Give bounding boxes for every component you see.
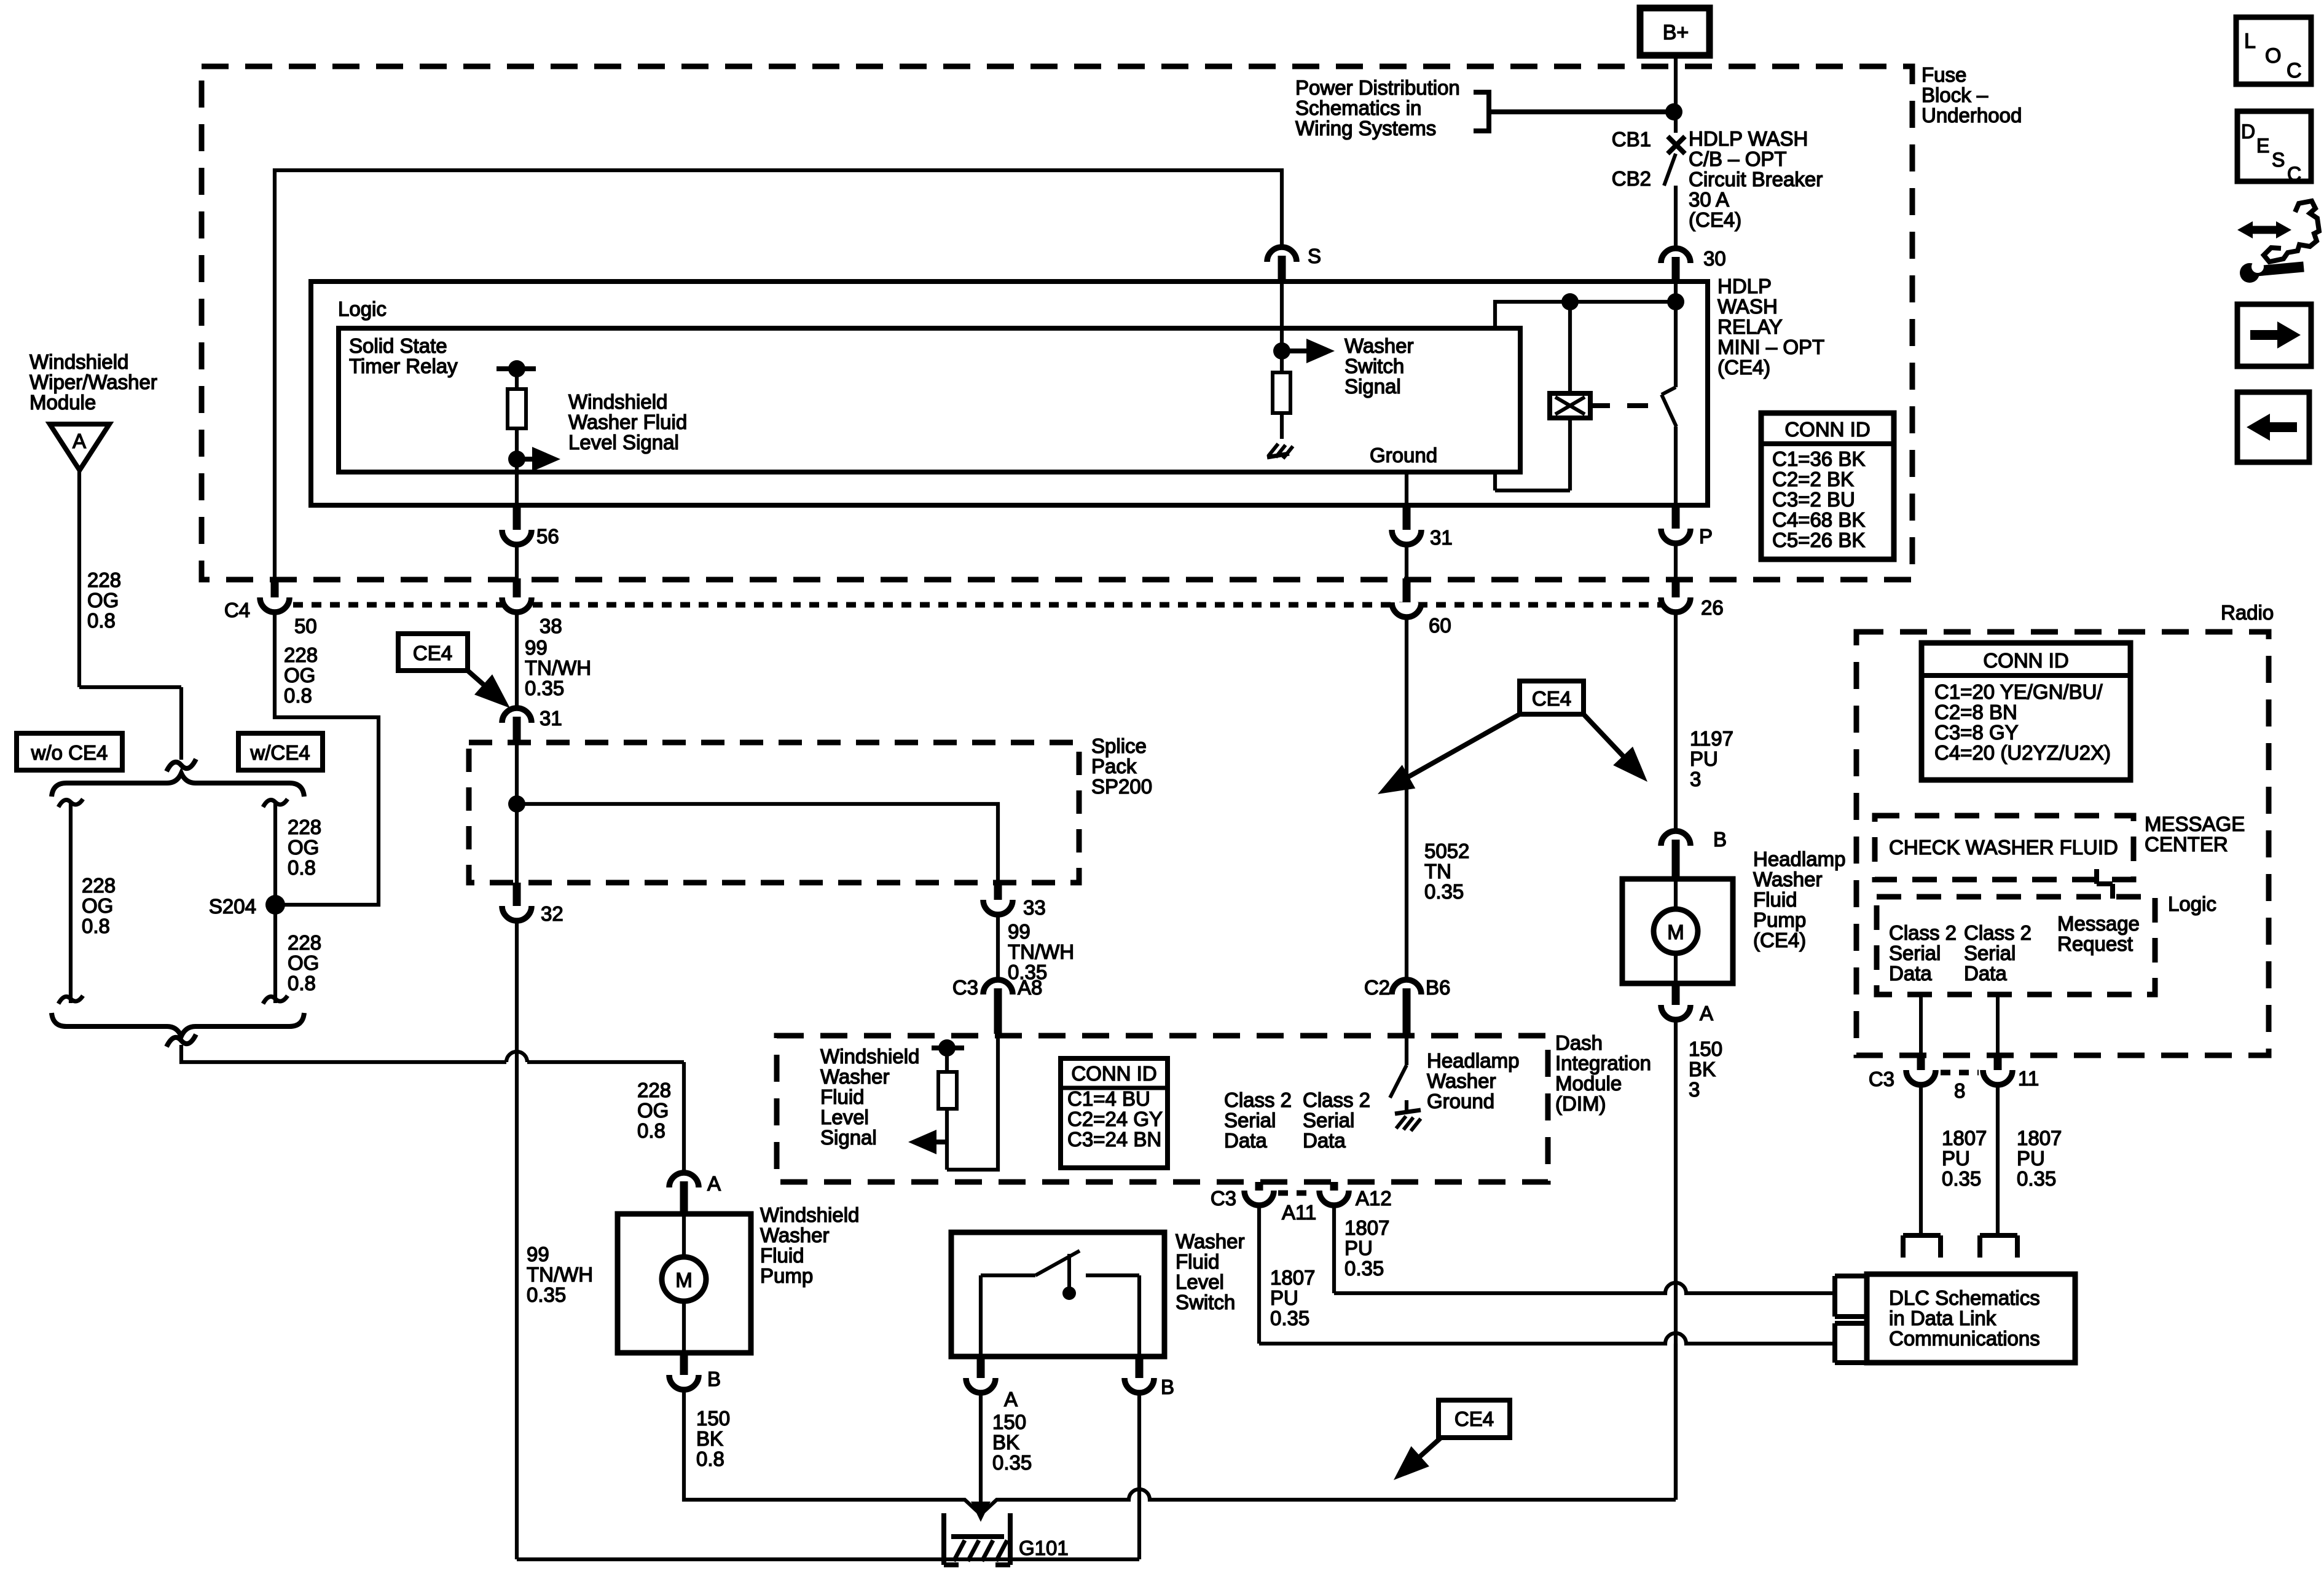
svg-text:M: M	[1667, 921, 1684, 943]
connector B windshield washer pump	[669, 1353, 949, 1500]
svg-text:0.8: 0.8	[637, 1119, 665, 1142]
svg-text:50: 50	[294, 615, 317, 637]
svg-text:Module: Module	[1555, 1072, 1622, 1095]
svg-text:w/o CE4: w/o CE4	[31, 741, 108, 764]
svg-text:38: 38	[540, 615, 562, 637]
svg-text:56: 56	[536, 525, 559, 548]
connector A windshield washer pump	[669, 1172, 721, 1215]
svg-text:MESSAGE: MESSAGE	[2145, 813, 2245, 835]
svg-text:0.35: 0.35	[2017, 1167, 2056, 1190]
svg-text:Request: Request	[2057, 932, 2133, 955]
relay coil	[1495, 302, 1590, 490]
svg-text:Message: Message	[2057, 912, 2140, 935]
connector 32	[502, 883, 593, 1559]
washer switch signal branch with resistor and internal ground	[1267, 284, 1413, 459]
svg-text:C1=20 YE/GN/BU/: C1=20 YE/GN/BU/	[1934, 680, 2103, 703]
DLC schematics box	[1867, 1274, 2075, 1363]
svg-text:B: B	[1713, 828, 1727, 851]
DIM bottom connector C3 pins A11 A12	[1211, 1182, 1392, 1224]
power distribution note and bracket	[1295, 76, 1670, 140]
svg-text:BK: BK	[1689, 1058, 1716, 1081]
svg-text:3: 3	[1690, 768, 1701, 790]
svg-text:Serial: Serial	[1303, 1109, 1354, 1132]
svg-text:Circuit Breaker: Circuit Breaker	[1689, 168, 1823, 191]
svg-text:Windshield: Windshield	[820, 1045, 919, 1068]
svg-text:228: 228	[284, 644, 318, 666]
svg-text:1807: 1807	[1345, 1216, 1389, 1239]
svg-text:Washer: Washer	[1427, 1069, 1496, 1092]
wires 1807 PU radio to DLC	[1921, 1085, 2062, 1235]
svg-text:Block –: Block –	[1922, 84, 1988, 106]
connector 60	[1392, 602, 1451, 980]
svg-text:Communications: Communications	[1889, 1327, 2040, 1350]
svg-text:OG: OG	[87, 589, 119, 612]
radio dashed box	[1856, 601, 2274, 1055]
svg-text:Underhood: Underhood	[1922, 104, 2022, 127]
svg-text:C4=68 BK: C4=68 BK	[1772, 508, 1865, 531]
wire 1807 PU from A12 to DLC	[1334, 1205, 1837, 1293]
windshield washer fluid pump	[618, 1203, 859, 1353]
svg-text:Module: Module	[29, 391, 96, 414]
svg-text:Class 2: Class 2	[1964, 921, 2032, 944]
svg-text:0.35: 0.35	[1270, 1307, 1309, 1329]
svg-text:30: 30	[1703, 247, 1726, 270]
headlamp washer fluid pump	[1622, 848, 1845, 983]
svg-text:S: S	[1308, 245, 1321, 267]
headlamp washer ground switch in DIM	[1390, 1036, 1519, 1131]
option break squiggle lower	[167, 1034, 196, 1047]
connector 56	[502, 506, 559, 548]
svg-text:Level: Level	[1176, 1270, 1224, 1293]
DESC icon	[2237, 111, 2311, 185]
svg-text:Headlamp: Headlamp	[1427, 1049, 1519, 1072]
svg-text:C2=8 BN: C2=8 BN	[1934, 701, 2017, 723]
svg-text:60: 60	[1429, 614, 1451, 637]
svg-text:DLC Schematics: DLC Schematics	[1889, 1286, 2040, 1309]
svg-text:RELAY: RELAY	[1717, 315, 1783, 338]
connector C4 with circuit 50	[224, 578, 317, 637]
check washer fluid message box	[1875, 813, 2245, 880]
svg-text:228: 228	[637, 1079, 671, 1101]
svg-text:Class 2: Class 2	[1303, 1089, 1370, 1111]
wire 228 OG from C4 to S204	[275, 612, 379, 905]
svg-text:Windshield: Windshield	[568, 390, 667, 413]
svg-text:99: 99	[527, 1243, 549, 1266]
svg-text:Washer: Washer	[1176, 1230, 1244, 1253]
next arrow icon	[2237, 304, 2311, 366]
svg-text:Signal: Signal	[820, 1126, 877, 1149]
svg-text:Wiring Systems: Wiring Systems	[1295, 117, 1436, 140]
connector 33	[983, 883, 1074, 983]
svg-text:HDLP: HDLP	[1717, 275, 1772, 297]
svg-text:SP200: SP200	[1091, 775, 1152, 798]
svg-text:CONN ID: CONN ID	[1784, 418, 1870, 441]
svg-text:OG: OG	[288, 836, 319, 859]
svg-text:Fluid: Fluid	[760, 1244, 804, 1267]
svg-text:Logic: Logic	[2168, 892, 2216, 915]
timer relay internal resistor and supply bar	[497, 360, 536, 505]
svg-text:OG: OG	[82, 894, 113, 917]
ground label and wire to connector 31	[1370, 444, 1437, 505]
svg-text:TN/WH: TN/WH	[527, 1263, 593, 1286]
svg-text:Switch: Switch	[1176, 1291, 1235, 1313]
fuse block label	[1922, 63, 2022, 127]
svg-text:C2=2 BK: C2=2 BK	[1772, 468, 1854, 490]
svg-text:Fluid: Fluid	[1176, 1250, 1220, 1273]
svg-text:O: O	[2265, 44, 2281, 68]
svg-text:TN: TN	[1424, 860, 1451, 883]
wire 1197 PU to headlamp pump	[1676, 612, 1733, 831]
svg-text:1807: 1807	[2017, 1127, 2062, 1149]
svg-text:99: 99	[1008, 920, 1030, 943]
svg-text:Fluid: Fluid	[1753, 888, 1797, 911]
option brace top	[52, 773, 304, 797]
DIM washer fluid level signal circuit	[820, 1036, 998, 1170]
svg-text:150: 150	[992, 1411, 1026, 1433]
circuit breaker CB1 CB2 HDLP WASH C/B	[1612, 127, 1823, 250]
svg-text:Integration: Integration	[1555, 1052, 1651, 1074]
svg-text:150: 150	[1689, 1038, 1722, 1060]
svg-text:Pump: Pump	[1753, 908, 1806, 931]
svg-text:Washer Fluid: Washer Fluid	[568, 411, 687, 433]
svg-text:Data: Data	[1303, 1129, 1346, 1152]
service wrench icon	[2237, 201, 2319, 283]
svg-text:Ground: Ground	[1427, 1090, 1494, 1112]
inline connector row dotted line	[275, 602, 1676, 608]
battery terminal B+	[1640, 8, 1710, 55]
svg-text:A: A	[1004, 1388, 1018, 1411]
wire label 5052 TN	[1424, 840, 1469, 903]
svg-text:A: A	[707, 1172, 721, 1195]
svg-text:C: C	[2287, 59, 2302, 82]
svg-text:A: A	[1700, 1002, 1713, 1025]
wire 228 OG to windshield washer pump	[181, 1045, 684, 1173]
connector C2 B6 to DIM	[1364, 976, 1451, 1034]
svg-text:OG: OG	[637, 1099, 669, 1122]
wire B+ to circuit breaker CB1	[1665, 55, 1682, 133]
svg-text:31: 31	[1430, 526, 1453, 549]
svg-text:CE4: CE4	[413, 642, 452, 664]
fuse block underhood dashed outline	[202, 66, 1912, 580]
relay switch	[1662, 302, 1676, 505]
svg-text:Class 2: Class 2	[1889, 921, 1957, 944]
CE4 option tag with two arrows	[1378, 681, 1647, 794]
svg-text:Pump: Pump	[760, 1264, 813, 1287]
fuse block CONN ID table	[1761, 413, 1894, 559]
svg-text:CONN ID: CONN ID	[1983, 649, 2068, 672]
svg-text:C3=8 GY: C3=8 GY	[1934, 721, 2019, 744]
svg-text:Timer Relay: Timer Relay	[349, 355, 458, 377]
wire from triangle A down to option split	[79, 470, 181, 760]
svg-text:Class 2: Class 2	[1224, 1089, 1292, 1111]
svg-text:Data: Data	[1224, 1129, 1267, 1152]
svg-text:0.35: 0.35	[1345, 1257, 1384, 1280]
svg-text:Power Distribution: Power Distribution	[1295, 76, 1460, 99]
windshield wiper washer module label	[29, 350, 157, 414]
svg-text:32: 32	[541, 902, 563, 925]
connector B headlamp pump	[1661, 828, 1727, 880]
svg-text:B+: B+	[1663, 21, 1689, 44]
svg-text:Data: Data	[1964, 962, 2007, 985]
option brace bottom	[52, 1013, 304, 1036]
svg-text:w/CE4: w/CE4	[249, 741, 310, 764]
connector B level switch	[1125, 1357, 1174, 1559]
svg-text:PU: PU	[1270, 1286, 1298, 1309]
svg-text:Logic: Logic	[338, 297, 387, 320]
svg-text:0.35: 0.35	[525, 677, 564, 699]
svg-text:CE4: CE4	[1532, 687, 1571, 710]
svg-text:L: L	[2244, 30, 2256, 53]
svg-text:C1=36 BK: C1=36 BK	[1772, 447, 1865, 470]
svg-text:0.35: 0.35	[992, 1451, 1032, 1474]
radio CONN ID table	[1922, 643, 2130, 780]
svg-text:M: M	[675, 1269, 693, 1291]
svg-text:(CE4): (CE4)	[1753, 929, 1806, 951]
svg-text:B6: B6	[1426, 976, 1450, 999]
connector 30	[1661, 247, 1726, 284]
connector A level switch	[966, 1357, 1032, 1501]
svg-text:(DIM): (DIM)	[1555, 1092, 1606, 1115]
svg-text:G101: G101	[1019, 1537, 1069, 1559]
svg-text:Schematics in: Schematics in	[1295, 96, 1421, 119]
connector 38 with wire 99 TN/WH	[502, 545, 591, 708]
message center to logic connector jog	[2097, 869, 2113, 899]
svg-text:228: 228	[288, 931, 321, 954]
relay internal feed line with junctions	[1495, 284, 1684, 330]
svg-text:CB1: CB1	[1612, 128, 1651, 151]
svg-text:26: 26	[1701, 596, 1724, 619]
connector 26	[1661, 578, 1724, 619]
svg-text:CENTER: CENTER	[2145, 833, 2228, 856]
svg-text:S204: S204	[209, 895, 256, 918]
svg-text:OG: OG	[288, 951, 319, 974]
svg-text:228: 228	[87, 569, 121, 591]
wire label 228 OG module side	[87, 569, 121, 632]
svg-text:Data: Data	[1889, 962, 1932, 985]
svg-text:C3: C3	[1869, 1068, 1894, 1090]
wire 1807 PU from A11 to DLC	[1259, 1205, 1837, 1344]
svg-text:0.8: 0.8	[288, 856, 316, 879]
svg-text:B: B	[707, 1368, 721, 1390]
svg-text:P: P	[1699, 525, 1713, 548]
connector 31 inline	[502, 707, 562, 744]
svg-text:0.8: 0.8	[87, 609, 116, 632]
svg-text:Windshield: Windshield	[760, 1203, 859, 1226]
svg-text:C3: C3	[1211, 1187, 1236, 1210]
svg-text:C: C	[2287, 163, 2301, 185]
svg-text:30 A: 30 A	[1689, 188, 1729, 211]
relay coil to switch dashed link	[1593, 403, 1648, 408]
svg-text:S: S	[2272, 149, 2285, 171]
CE4 option tag at ground net	[1394, 1400, 1510, 1480]
svg-text:Splice: Splice	[1091, 734, 1147, 757]
svg-text:33: 33	[1023, 896, 1046, 919]
svg-text:0.35: 0.35	[527, 1283, 566, 1306]
svg-text:HDLP WASH: HDLP WASH	[1689, 127, 1808, 150]
svg-text:TN/WH: TN/WH	[1008, 940, 1074, 963]
svg-text:WASH: WASH	[1717, 295, 1778, 318]
svg-text:(CE4): (CE4)	[1717, 356, 1770, 379]
svg-text:CONN ID: CONN ID	[1071, 1062, 1156, 1085]
svg-text:Washer: Washer	[820, 1065, 889, 1088]
svg-text:Washer: Washer	[1753, 868, 1822, 891]
svg-text:Radio: Radio	[2221, 601, 2274, 624]
svg-text:Solid State: Solid State	[349, 334, 447, 357]
connector S	[1267, 245, 1321, 284]
w/o CE4 branch wire	[58, 799, 116, 1004]
svg-text:31: 31	[540, 707, 562, 730]
svg-text:Ground: Ground	[1370, 444, 1437, 467]
connector 31 at module	[1392, 506, 1453, 578]
back arrow icon	[2237, 392, 2309, 462]
svg-text:A8: A8	[1018, 976, 1042, 999]
svg-text:Wiper/Washer: Wiper/Washer	[29, 371, 157, 393]
svg-text:C3=2 BU: C3=2 BU	[1772, 488, 1855, 511]
svg-text:Windshield: Windshield	[29, 350, 128, 373]
svg-text:Serial: Serial	[1964, 942, 2016, 964]
svg-text:5052: 5052	[1424, 840, 1469, 862]
svg-text:C3=24 BN: C3=24 BN	[1067, 1128, 1161, 1151]
svg-text:1197: 1197	[1690, 727, 1733, 750]
svg-text:150: 150	[696, 1407, 730, 1430]
connector P	[1661, 506, 1713, 578]
ground net wire with G101	[949, 1344, 1676, 1514]
G101 ground symbol	[944, 1484, 1069, 1565]
svg-text:PU: PU	[1345, 1237, 1373, 1259]
svg-text:C4=20 (U2YZ/U2X): C4=20 (U2YZ/U2X)	[1934, 741, 2111, 764]
svg-text:11: 11	[2018, 1067, 2039, 1090]
svg-text:0.8: 0.8	[82, 915, 110, 937]
DLC left pin brackets	[1835, 1276, 1867, 1363]
connector A headlamp pump	[1661, 983, 1722, 1500]
svg-text:PU: PU	[1690, 747, 1718, 770]
svg-text:0.8: 0.8	[284, 684, 312, 707]
svg-text:0.35: 0.35	[1424, 880, 1464, 903]
svg-text:CB2: CB2	[1612, 167, 1651, 190]
LOC icon	[2236, 17, 2311, 84]
svg-text:E: E	[2256, 135, 2269, 157]
svg-text:C5=26 BK: C5=26 BK	[1772, 529, 1865, 551]
svg-text:C4: C4	[224, 599, 250, 621]
option break squiggle upper	[167, 759, 196, 771]
svg-text:A11: A11	[1282, 1201, 1316, 1224]
svg-text:C/B – OPT: C/B – OPT	[1689, 148, 1787, 170]
svg-text:D: D	[2241, 120, 2255, 143]
HDLP WASH RELAY label	[1717, 275, 1824, 379]
svg-text:MINI – OPT: MINI – OPT	[1717, 336, 1824, 358]
solid state timer relay box	[339, 328, 1520, 472]
svg-text:Fuse: Fuse	[1922, 63, 1966, 86]
svg-text:Level: Level	[820, 1106, 869, 1128]
w/CE4 branch wire with splice S204	[209, 799, 321, 1004]
svg-text:OG: OG	[284, 664, 315, 687]
svg-text:A: A	[73, 430, 86, 452]
radio logic dashed box	[1877, 892, 2216, 994]
module reference triangle A	[50, 424, 109, 470]
svg-text:0.8: 0.8	[696, 1447, 724, 1470]
svg-text:Washer: Washer	[1345, 334, 1413, 357]
svg-text:Fluid: Fluid	[820, 1085, 865, 1108]
svg-text:C2: C2	[1364, 976, 1390, 999]
svg-text:CHECK WASHER FLUID: CHECK WASHER FLUID	[1889, 836, 2118, 859]
wire 99 TN/WH bottom run to level switch B	[517, 1557, 1139, 1561]
svg-text:B: B	[1161, 1376, 1174, 1398]
svg-text:1807: 1807	[1270, 1266, 1315, 1289]
svg-text:228: 228	[82, 874, 116, 897]
svg-text:Level Signal: Level Signal	[568, 431, 679, 454]
svg-text:(CE4): (CE4)	[1689, 208, 1741, 231]
connector C3 A8 to DIM	[952, 976, 1043, 1034]
w/o CE4 tag	[17, 733, 122, 770]
svg-text:TN/WH: TN/WH	[525, 656, 591, 679]
svg-text:Signal: Signal	[1345, 375, 1401, 398]
svg-text:Dash: Dash	[1555, 1031, 1603, 1054]
svg-text:Washer: Washer	[760, 1224, 829, 1246]
svg-text:A12: A12	[1356, 1187, 1392, 1210]
svg-text:C3: C3	[952, 976, 978, 999]
svg-text:8: 8	[1954, 1079, 1965, 1102]
dash integration module dashed box	[777, 1031, 1651, 1182]
svg-text:Pack: Pack	[1091, 755, 1137, 778]
svg-text:Switch: Switch	[1345, 355, 1404, 377]
DLC pin brackets	[1903, 1235, 2017, 1258]
logic box	[311, 282, 1708, 505]
svg-text:Headlamp: Headlamp	[1753, 848, 1845, 870]
svg-text:1807: 1807	[1942, 1127, 1987, 1149]
w/CE4 tag	[238, 733, 323, 770]
splice wire junction	[508, 744, 998, 883]
radio class 2 serial data wires to connectors	[1869, 994, 2039, 1102]
svg-text:0.8: 0.8	[288, 972, 316, 994]
svg-text:CE4: CE4	[1454, 1408, 1494, 1430]
splice pack SP200 dashed box	[469, 734, 1152, 883]
DIM CONN ID table	[1061, 1058, 1168, 1168]
windshield washer fluid level signal arrow	[517, 390, 687, 471]
svg-text:PU: PU	[1942, 1147, 1970, 1170]
svg-text:BK: BK	[696, 1427, 723, 1450]
svg-text:228: 228	[288, 816, 321, 838]
DIM class 2 serial data labels	[1224, 1089, 1370, 1152]
module outline wire from C4 up and over to S	[275, 170, 1282, 578]
svg-text:C1=4 BU: C1=4 BU	[1067, 1087, 1150, 1110]
svg-text:in Data Link: in Data Link	[1889, 1307, 1996, 1329]
wire ground 31 to 60	[1403, 578, 1411, 608]
svg-text:0.35: 0.35	[1942, 1167, 1981, 1190]
svg-text:99: 99	[525, 636, 548, 659]
svg-text:Serial: Serial	[1889, 942, 1941, 964]
svg-text:3: 3	[1689, 1078, 1700, 1101]
CE4 option tag pointing at connector 31	[398, 634, 510, 708]
svg-text:Serial: Serial	[1224, 1109, 1276, 1132]
svg-text:BK: BK	[992, 1431, 1019, 1454]
svg-text:PU: PU	[2017, 1147, 2045, 1170]
svg-text:C2=24 GY: C2=24 GY	[1067, 1108, 1163, 1130]
washer fluid level switch	[951, 1230, 1244, 1357]
